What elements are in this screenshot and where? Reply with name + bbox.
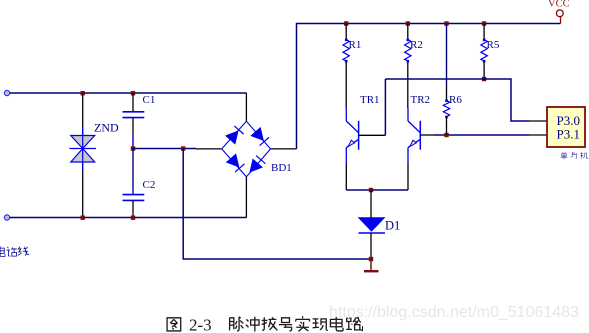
wire R5 bottom stub [483, 61, 485, 79]
svg-text:TR2: TR2 [411, 94, 431, 106]
wire D1 bottom stub [370, 233, 372, 259]
svg-text:R6: R6 [449, 94, 462, 106]
node rail R6 [444, 21, 448, 25]
wire D1 top stub [370, 190, 372, 218]
paragraph mark [360, 326, 363, 331]
wire base net to P3.0 [385, 79, 529, 121]
svg-text:D1: D1 [385, 219, 400, 233]
resistor R1 [343, 40, 349, 62]
node ground [369, 257, 373, 261]
svg-text:R1: R1 [349, 39, 362, 51]
svg-text:C1: C1 [143, 94, 156, 106]
node ZND top [81, 91, 85, 95]
wire top-left horizontal [10, 92, 247, 94]
node ZND bottom [81, 216, 85, 220]
wire TR1 base riser [384, 79, 386, 135]
wire TR1 emitter down [345, 163, 347, 190]
node C1 top [131, 91, 135, 95]
wire R2 top stub [407, 24, 409, 40]
node rail R5 [482, 21, 486, 25]
power VCC [560, 17, 562, 24]
wire R1 top stub [345, 24, 347, 40]
wire R6 from rail [446, 24, 448, 87]
terminal bottom-left [4, 215, 9, 220]
resistor R2 [405, 40, 411, 62]
terminal top-left [4, 90, 9, 95]
wire C2 top stub [132, 149, 134, 189]
pin TR1 base [359, 134, 386, 136]
pin ZND bottom [82, 162, 84, 170]
pin ZND top [82, 128, 84, 136]
node emitter D1 [369, 188, 373, 192]
pin bridge top [245, 93, 247, 121]
wire ZND bottom stub [82, 170, 84, 218]
wire TR2 emitter down [407, 163, 409, 190]
node mid riser [181, 146, 185, 150]
wire R1 bottom [345, 61, 347, 108]
svg-text:VCC: VCC [548, 0, 570, 10]
wire mid horizontal [133, 148, 196, 150]
node rail R2 [406, 21, 410, 25]
diode bridge bottom-left [227, 154, 245, 172]
node mid C1C2 [131, 146, 135, 150]
svg-text:BD1: BD1 [271, 162, 292, 174]
svg-text:2-3: 2-3 [189, 316, 212, 333]
diode bridge top-left [226, 126, 244, 144]
pin box P3.0 [529, 120, 547, 122]
zener ZND [70, 136, 97, 163]
wire C2 bottom stub [132, 200, 134, 217]
node C2 bottom [131, 216, 135, 220]
svg-text:R5: R5 [487, 39, 500, 51]
pin bridge left [196, 148, 222, 150]
label 电话线 (telephone line) [0, 246, 29, 256]
MCU box [547, 107, 585, 147]
node rail R1 [344, 21, 348, 25]
wire bottom-left horizontal [10, 217, 247, 219]
diode bridge top-right [251, 128, 269, 146]
transistor TR2 [408, 108, 420, 163]
node R5 bottom [482, 77, 486, 81]
wire P3.1 net [434, 134, 529, 136]
wire ZND top stub [82, 93, 84, 128]
wire C1 bottom stub [132, 118, 134, 134]
capacitor C1 [123, 112, 145, 118]
wire rail riser [297, 24, 561, 149]
bridge BD1 [222, 121, 271, 177]
wire riser down [183, 149, 371, 260]
wire C1 top stub [132, 93, 134, 111]
wire R6 bottom stub [446, 117, 448, 135]
wire R2 bottom [407, 61, 409, 108]
pin bridge bottom [245, 177, 247, 218]
ground [370, 259, 372, 271]
svg-text:C2: C2 [143, 179, 156, 191]
pin box P3.1 [529, 134, 547, 136]
svg-text:TR1: TR1 [360, 94, 380, 106]
wire R5 top stub [483, 24, 485, 40]
node R6 bottom [444, 133, 448, 137]
capacitor C2 [123, 195, 145, 201]
pin bridge right [271, 148, 297, 150]
transistor TR1 [346, 108, 358, 163]
wire emitter bus [346, 189, 408, 191]
pin TR2 base [420, 134, 434, 136]
diode D1 [359, 218, 385, 231]
label 单片机 [561, 152, 588, 159]
resistor R5 [481, 40, 487, 62]
svg-text:R2: R2 [410, 39, 423, 51]
svg-text:https://blog.csdn.net/m0_51061: https://blog.csdn.net/m0_51061483 [329, 304, 579, 321]
diode bridge bottom-right [246, 156, 266, 176]
svg-text:P3.1: P3.1 [557, 127, 580, 142]
svg-text:ZND: ZND [94, 121, 119, 135]
resistor R6 [443, 101, 449, 117]
